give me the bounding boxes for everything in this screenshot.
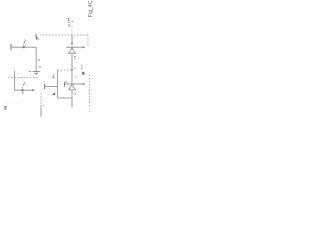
wire: left branch vertical xyxy=(14,71,16,90)
Q1 collector arrow (down) xyxy=(71,43,73,46)
Q2 left base terminal xyxy=(63,82,65,87)
label xyxy=(52,75,54,78)
cursor arrow xyxy=(36,34,39,40)
svg-text:Fig_4C: Fig_4C xyxy=(88,0,94,17)
junction at (72,70) xyxy=(71,69,73,71)
dashed wire (lower left) xyxy=(8,77,37,79)
wire from source down to dashed net xyxy=(71,27,73,36)
dashed wire: right vertical xyxy=(89,75,91,107)
Q1 emitter triangle xyxy=(69,48,76,53)
wire: horizontal into emitter node xyxy=(58,97,72,99)
label arrow xyxy=(52,92,56,95)
node B lower label xyxy=(22,93,25,94)
node B label 2 xyxy=(23,82,25,89)
Q1 base bar xyxy=(66,46,77,48)
transistor Q1 xyxy=(66,43,85,53)
wire: bottom horizontal with arrow xyxy=(15,89,33,91)
Q2 emitter triangle xyxy=(69,85,76,90)
wire: Q1 emitter down xyxy=(71,53,73,70)
node A junction xyxy=(23,46,25,48)
ground xyxy=(33,72,40,75)
wire from port to node A xyxy=(11,46,36,48)
labels right side xyxy=(81,65,83,69)
port IN (left) xyxy=(10,44,12,50)
dashed wire: y=70 to emitter node xyxy=(58,69,72,71)
label xyxy=(74,93,76,95)
port 2 (middle) xyxy=(44,84,46,89)
node 2 label (top source symbol) xyxy=(68,18,70,26)
wire from port 2 xyxy=(45,86,58,88)
Q2 right base wire with arrow xyxy=(77,83,82,85)
pin label xyxy=(74,57,76,59)
svg-text:. * · · - · -: . * · · - · - xyxy=(3,102,20,106)
wire: down to Q2 collector xyxy=(71,70,73,84)
node A label 2 xyxy=(24,40,25,46)
dashed wire: horizontal net at y=35 xyxy=(40,34,88,36)
wire: collector of Q1 from net down xyxy=(71,35,73,44)
stray mark left of ground xyxy=(29,71,31,73)
wire: vertical branch x=57.6 xyxy=(57,70,59,98)
tick above base xyxy=(65,81,68,83)
node B junction xyxy=(21,89,23,91)
dashed wire: corner down at x=88 xyxy=(87,35,89,47)
transistor Q2 xyxy=(64,81,85,89)
arrow marker at source xyxy=(72,21,74,23)
wire: Q2 emitter down xyxy=(71,90,73,108)
wire: corner down to ground xyxy=(35,47,37,71)
dashed wire: vertical at x=41 xyxy=(40,93,42,105)
Q1 base wire with arrow xyxy=(78,46,83,48)
Q2 base bar xyxy=(67,83,78,85)
wire: solid below xyxy=(40,105,42,117)
pin labels on wire xyxy=(38,59,40,61)
